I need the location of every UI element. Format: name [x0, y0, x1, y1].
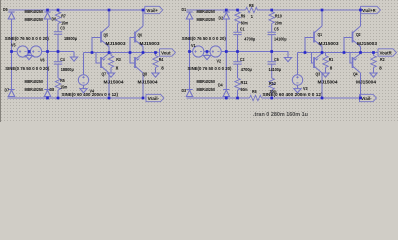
wire R4 leads — [155, 53, 157, 56]
window left edge — [0, 0, 1, 122]
resistor R4 body — [153, 56, 158, 68]
ground R4 — [152, 70, 159, 77]
wire Q6 emitter — [142, 47, 144, 53]
capacitor C1 body — [233, 32, 241, 34]
transistor Q4 body — [353, 54, 361, 74]
svg-text:60m: 60m — [241, 21, 248, 27]
svg-text:R9: R9 — [241, 14, 246, 20]
node flag Vrail- — [359, 94, 377, 101]
wire R7 chain leads — [57, 10, 59, 12]
svg-text:Q4: Q4 — [353, 72, 358, 78]
svg-text:SINE(0 76 50 0 0 0 20): SINE(0 76 50 0 0 0 20) — [5, 66, 49, 72]
svg-text:R10: R10 — [275, 14, 282, 20]
wire C6 R12 chain — [271, 52, 273, 62]
svg-text:C2: C2 — [240, 57, 245, 63]
wire R2 leads — [373, 53, 375, 56]
svg-text:D8: D8 — [50, 87, 55, 93]
ground R3 — [107, 70, 114, 77]
wire V4 to amp — [83, 53, 85, 75]
svg-text:14100µ: 14100µ — [269, 67, 282, 73]
wire: left bottom rail — [8, 97, 145, 99]
voltage source V6 — [30, 46, 41, 57]
wire Q5 collector — [108, 10, 110, 26]
svg-text:4700µ: 4700µ — [244, 37, 255, 43]
transistor Q7 body — [101, 54, 109, 74]
diode D1 — [186, 11, 192, 13]
svg-text:14100µ: 14100µ — [274, 37, 287, 43]
svg-text:Vrail-: Vrail- — [361, 96, 372, 102]
ground center tap right — [203, 52, 210, 60]
resistor R3 body — [108, 56, 113, 68]
ground V4 — [80, 86, 87, 93]
svg-text:Vrail-: Vrail- — [148, 96, 160, 102]
svg-text:MJ15004: MJ15004 — [104, 80, 124, 86]
wire Q2 base — [344, 38, 353, 53]
wire: D1 vertical — [189, 19, 191, 52]
wire Q3 base — [312, 53, 315, 64]
svg-text:SINE(0 76 50 0 0 0 20): SINE(0 76 50 0 0 0 20) — [5, 36, 49, 42]
svg-text:Q5: Q5 — [104, 33, 109, 39]
transistor Q5 body — [101, 26, 109, 47]
svg-text:SINE(0 76 50 0 0 0 20): SINE(0 76 50 0 0 0 20) — [182, 36, 226, 42]
svg-text:Q6: Q6 — [138, 33, 143, 39]
svg-text:R3: R3 — [116, 57, 121, 63]
svg-text:V3: V3 — [303, 86, 308, 92]
wire: right top rail — [187, 9, 246, 11]
diode D4 — [223, 89, 229, 91]
wire Q1 base — [305, 38, 314, 53]
node flag VoutR — [377, 49, 396, 56]
capacitor C3 body — [54, 32, 62, 34]
wire Q2 collector — [360, 10, 362, 26]
transistor Q2 body — [353, 26, 361, 47]
svg-text:4700µ: 4700µ — [241, 67, 252, 73]
node flag Vrail+ — [144, 6, 163, 13]
svg-text:C6: C6 — [274, 57, 279, 63]
svg-text:V1: V1 — [191, 43, 196, 49]
ground center tap left — [25, 52, 32, 60]
resistor R8 body — [246, 7, 258, 12]
wire: D3 vertical — [189, 52, 191, 90]
voltage source V1 — [193, 46, 204, 57]
svg-text:MJ15004: MJ15004 — [318, 80, 338, 86]
svg-text:R11: R11 — [241, 80, 248, 86]
wire Q7 base — [96, 53, 101, 64]
svg-text:8: 8 — [161, 66, 164, 72]
wire C2 R11 chain — [237, 52, 239, 62]
svg-text:Vrail+: Vrail+ — [146, 8, 158, 14]
voltage source V2 — [210, 46, 221, 57]
resistor R9 body — [235, 12, 240, 24]
capacitor C2 body — [233, 62, 241, 64]
capacitor C6 body — [268, 62, 276, 64]
svg-text:VoutR: VoutR — [380, 50, 392, 56]
wire Q7 collector — [108, 73, 110, 98]
wire: D6 vertical — [47, 19, 49, 52]
transistor Q1 body — [314, 26, 322, 47]
ground R2 — [370, 70, 377, 77]
svg-text:D2: D2 — [219, 16, 224, 22]
wire: right transformer bus — [190, 52, 289, 54]
junction dots left transformer bus — [10, 50, 13, 53]
svg-text:R12: R12 — [269, 81, 276, 87]
voltage source V4 — [78, 75, 88, 85]
svg-text:V5: V5 — [11, 43, 16, 49]
wire: D2 vertical — [225, 19, 227, 52]
voltage source V3 — [292, 75, 302, 85]
svg-text:Vout: Vout — [161, 50, 171, 56]
svg-text:D4: D4 — [218, 83, 223, 89]
wire R9 C1 chain — [237, 10, 239, 12]
resistor R2 body — [371, 56, 376, 68]
diode D2 — [223, 11, 229, 13]
node flag Vout — [159, 49, 176, 56]
svg-text:8: 8 — [116, 66, 119, 72]
svg-text:MJ15004: MJ15004 — [356, 80, 376, 86]
junction dots right bottom rail — [225, 97, 228, 100]
resistor R11 body — [235, 78, 240, 90]
wire Q5 emitter — [108, 47, 110, 53]
svg-text:SINE(0 76 50 0 0 0 20): SINE(0 76 50 0 0 0 20) — [188, 66, 232, 72]
svg-text:1: 1 — [251, 14, 253, 20]
svg-text:D7: D7 — [5, 88, 10, 94]
svg-text:MJ15003: MJ15003 — [357, 41, 377, 47]
wire: right bottom rail — [187, 97, 250, 99]
diode D8 — [44, 89, 50, 91]
resistor R6 body — [250, 95, 262, 100]
svg-text:MBR40250: MBR40250 — [197, 79, 216, 85]
ground V3 — [294, 86, 301, 93]
node flag Vrail- — [145, 94, 164, 101]
wire: transformer bus — [12, 51, 75, 53]
svg-text:C4: C4 — [60, 57, 65, 63]
wire Q6 base — [130, 38, 135, 53]
svg-text:MBR40250: MBR40250 — [25, 9, 44, 15]
wire: D8 vertical — [47, 52, 49, 90]
svg-text:D3: D3 — [182, 88, 187, 94]
wire V3 to amp — [297, 53, 299, 75]
wire Q8 collector — [142, 73, 144, 98]
svg-text:C1: C1 — [240, 27, 245, 33]
voltage source V5 — [17, 46, 28, 57]
svg-text:18800µ: 18800µ — [61, 67, 74, 73]
wire Q4 base — [350, 53, 353, 64]
svg-text:Q3: Q3 — [316, 72, 321, 78]
transistor Q6 body — [135, 26, 143, 47]
wire Q8 base — [130, 53, 135, 64]
wire R1 leads — [325, 53, 327, 56]
svg-text:MBR40250: MBR40250 — [197, 9, 216, 15]
wire: left amp node bus — [84, 52, 159, 54]
resistor R1 body — [323, 56, 328, 68]
ground bus end right — [284, 54, 291, 62]
wire Q5 base — [92, 38, 101, 53]
wire Q1 collector — [321, 10, 323, 26]
junction dots left bottom rail — [46, 97, 49, 100]
svg-text:MBR40250: MBR40250 — [25, 17, 44, 23]
transistor Q3 body — [314, 54, 322, 74]
svg-text:.tran 0 280m 160m 1u: .tran 0 280m 160m 1u — [253, 112, 308, 118]
resistor R5 body — [55, 78, 60, 90]
svg-text:MJ15003: MJ15003 — [319, 41, 339, 47]
wire R10 C5 chain — [271, 10, 273, 12]
wire Q4 collector — [360, 73, 362, 98]
svg-text:D5: D5 — [3, 7, 8, 13]
diode D6 — [44, 11, 50, 13]
svg-text:Q1: Q1 — [318, 32, 323, 38]
wire: left top rail — [9, 9, 144, 11]
wire Q1 emitter — [321, 47, 323, 53]
resistor R10 body — [269, 12, 274, 24]
svg-text:MBR40250: MBR40250 — [25, 87, 44, 93]
wire: D4 vertical — [225, 52, 227, 90]
diode D7 — [8, 89, 14, 91]
svg-text:Q8: Q8 — [143, 72, 148, 78]
svg-text:8: 8 — [330, 66, 333, 72]
svg-text:C5: C5 — [274, 27, 279, 33]
svg-text:MJ15003: MJ15003 — [106, 41, 126, 47]
svg-text:V6: V6 — [40, 58, 45, 64]
wire: right amp node bus — [298, 52, 378, 54]
svg-text:R2: R2 — [380, 57, 385, 63]
diode D5 — [8, 11, 14, 13]
wire C4 R5 leads — [57, 52, 59, 62]
svg-text:18800µ: 18800µ — [64, 36, 77, 42]
svg-text:MBR40250: MBR40250 — [25, 79, 44, 85]
resistor R12 body — [269, 78, 274, 90]
svg-text:R1: R1 — [329, 57, 334, 63]
ground bus end left — [70, 52, 77, 62]
transistor Q8 body — [135, 54, 143, 74]
svg-text:V2: V2 — [217, 59, 222, 65]
svg-text:15m: 15m — [60, 85, 67, 91]
wire Q2 emitter — [360, 47, 362, 53]
svg-text:R5: R5 — [60, 78, 65, 84]
wire R3 leads — [110, 53, 112, 56]
capacitor C5 body — [268, 32, 276, 34]
wire: D5 cathode-to-transformer vertical — [11, 19, 13, 52]
diode D3 — [186, 89, 192, 91]
svg-text:MJ15004: MJ15004 — [138, 80, 158, 86]
svg-text:8: 8 — [379, 66, 382, 72]
ground R1 — [322, 70, 329, 77]
junction dots right top rail — [225, 9, 228, 12]
svg-text:20m: 20m — [275, 21, 282, 27]
wire: D7 vertical — [11, 52, 13, 90]
svg-text:R7: R7 — [61, 14, 66, 20]
capacitor C4 body — [54, 62, 62, 64]
svg-text:MBR40250: MBR40250 — [197, 17, 216, 23]
svg-text:D1: D1 — [182, 7, 187, 13]
junction dots left top rail — [46, 9, 49, 12]
junction dots right transformer bus — [188, 50, 191, 53]
svg-text:Q7: Q7 — [102, 72, 107, 78]
svg-text:MBR40250: MBR40250 — [197, 87, 216, 93]
wire Q3 collector — [321, 73, 323, 98]
wire Q6 collector — [142, 10, 144, 26]
svg-text:R6: R6 — [252, 89, 257, 95]
junction dots left amp bus — [91, 51, 94, 54]
svg-text:R4: R4 — [159, 57, 164, 63]
svg-text:MJ15003: MJ15003 — [140, 41, 160, 47]
svg-text:R8: R8 — [249, 3, 254, 9]
svg-text:Vrail+R: Vrail+R — [362, 8, 376, 14]
svg-text:C3: C3 — [60, 26, 65, 32]
node flag Vrail+R — [360, 6, 381, 13]
svg-text:Q2: Q2 — [356, 32, 361, 38]
junction dots right amp bus — [304, 51, 307, 54]
svg-text:60m: 60m — [241, 87, 248, 93]
resistor R7 body — [55, 12, 60, 24]
